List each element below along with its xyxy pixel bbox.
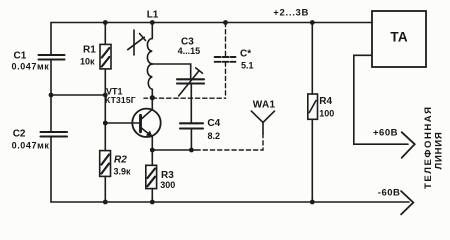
transistor VT1 (132, 109, 160, 137)
L1 tuning core (128, 30, 146, 55)
svg-text:5.1: 5.1 (241, 61, 254, 71)
wire mid tie (C-rail to divider) (51, 94, 105, 96)
svg-text:C2: C2 (13, 128, 26, 139)
svg-text:ТЕЛЕФОННАЯ: ТЕЛЕФОННАЯ (423, 105, 434, 189)
wire emitter node to C4 bottom (152, 149, 196, 151)
svg-text:-60В: -60В (378, 187, 401, 198)
capacitor C4 (180, 123, 203, 150)
resistor R1 (100, 23, 111, 96)
svg-text:R1: R1 (83, 45, 96, 56)
wire bottom rail -60V (51, 201, 409, 203)
svg-text:ТА: ТА (390, 30, 407, 45)
connector arrow -60V (401, 191, 413, 214)
svg-text:300: 300 (160, 180, 175, 190)
box TA telephone set (372, 11, 426, 67)
wire left rail segment C2-bottom (50, 137, 52, 203)
svg-text:0.047мк: 0.047мк (12, 62, 50, 72)
resistor R4 (308, 23, 318, 203)
wire TA to +60V (354, 55, 408, 144)
wire top rail +2...3V (51, 23, 372, 56)
dashed wire antenna feed (196, 134, 263, 150)
resistor R2 (100, 95, 111, 202)
dashed wire collector node to C* (152, 97, 225, 99)
antenna WA1 (251, 111, 274, 134)
svg-text:10к: 10к (80, 56, 95, 66)
wire left rail segment C1-C2 (50, 60, 52, 133)
svg-text:КТ315Г: КТ315Г (105, 95, 136, 105)
svg-text:C1: C1 (14, 51, 27, 62)
dash left of collector node (144, 97, 148, 99)
svg-text:R2: R2 (114, 154, 127, 165)
inductor L1 (147, 23, 152, 98)
svg-text:+2...3В: +2...3В (273, 8, 309, 19)
svg-text:3.9к: 3.9к (114, 167, 132, 177)
svg-text:L1: L1 (147, 10, 159, 21)
svg-text:C4: C4 (207, 118, 220, 129)
svg-text:4...15: 4...15 (178, 46, 201, 56)
wire base lead (105, 122, 140, 124)
wire collector lead (151, 98, 153, 110)
capacitor C2 (41, 132, 68, 137)
trimmer capacitor C3 (177, 68, 204, 96)
wire L1 tap to C3 (152, 64, 190, 79)
svg-text:WA1: WA1 (253, 100, 276, 111)
svg-text:+60В: +60В (373, 128, 398, 139)
svg-text:ЛИНИЯ: ЛИНИЯ (434, 131, 445, 169)
capacitor C* on dashed branch (215, 23, 236, 99)
svg-text:C*: C* (240, 49, 251, 60)
capacitor C1 (39, 55, 65, 60)
wire emitter lead to R3 (151, 137, 153, 166)
svg-text:R4: R4 (319, 96, 332, 107)
resistor R3 (146, 165, 157, 202)
svg-text:0.047мк: 0.047мк (12, 141, 50, 151)
svg-text:8.2: 8.2 (208, 131, 221, 141)
connector arrow +60V (402, 132, 415, 158)
wire C3 bottom to C4 top (190, 84, 192, 124)
svg-text:100: 100 (319, 109, 334, 119)
